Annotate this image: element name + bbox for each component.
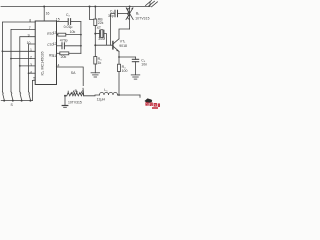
svg-text:4: 4 [30,71,32,75]
svg-text:IC₁ MC145026: IC₁ MC145026 [41,52,45,76]
svg-text:0.01μ: 0.01μ [64,25,73,29]
capacitor C2 0.01u [68,19,81,25]
node base branch [94,44,96,46]
resistor RB [94,7,97,34]
node RC col 470p [80,45,82,47]
svg-text:C₃: C₃ [110,9,115,13]
wire pin 7 [11,29,35,91]
svg-text:20k: 20k [61,55,67,59]
node junction stubA on rail [89,6,91,8]
svg-text:2: 2 [30,56,32,60]
wire pin 5 [32,80,35,100]
battery B2 10TV315 [65,91,84,96]
wire pin 1 [2,50,35,52]
switch S1 [1,92,4,93]
ground battery stub [62,96,68,108]
resistor R3 [94,57,97,73]
switch SA (pin 14) [57,67,84,95]
svg-text:C₂: C₂ [66,13,71,17]
svg-text:9: 9 [28,34,30,38]
inductor L1 12uH [100,92,118,95]
node crystal branch [94,33,96,35]
resistor R4 [118,64,121,95]
resistor R2 20k (pin11 RS) [57,52,81,55]
node pin4-col4 [28,72,30,74]
transistor VT1 9018 [113,39,119,52]
svg-text:SA: SA [71,71,76,75]
svg-text:RTC: RTC [47,32,54,36]
wire L1 right / emitter bottom [118,94,141,96]
svg-text:15: 15 [56,17,60,21]
svg-text:5: 5 [33,77,35,81]
node junction coil B1 on rail [129,6,131,8]
wire pin 8 [2,22,35,92]
node battery-left junction [64,95,66,97]
wire pin 2 [11,58,35,60]
op-amp ... IC U1 MC145026 box [35,21,56,85]
node emitter-L1 [118,94,120,96]
svg-text:10TV315: 10TV315 [68,100,82,104]
node pin2-col2 [10,58,12,60]
svg-text:8: 8 [29,19,31,23]
svg-text:CTC: CTC [47,43,54,47]
svg-text:RS: RS [49,53,53,57]
watermark logo [145,98,153,103]
svg-text:10TV315: 10TV315 [135,16,149,20]
svg-text:12μH: 12μH [97,98,106,102]
wire pin 16 stub [43,7,45,22]
svg-text:470p: 470p [60,39,68,43]
wire pin 15 Dout [57,21,69,23]
wire pin 4 [29,72,36,74]
watermark red text [145,102,160,109]
wire RB column to base [94,34,96,57]
svg-text:9018: 9018 [119,44,127,48]
svg-text:B₂: B₂ [75,89,79,93]
wire pin 3 [20,65,35,67]
capacitor C3 30p coupling [111,10,130,45]
node pin1-col1 [2,50,4,52]
capacitor C4 [132,57,138,75]
svg-text:14: 14 [56,63,60,67]
node RC col 10k [80,34,82,36]
svg-text:1: 1 [30,48,32,52]
text labels [27,11,60,80]
svg-text:30p: 30p [108,14,114,18]
svg-text:16: 16 [46,11,50,15]
crystal XT 30M [95,30,106,45]
inductor B1 adjustable coil 10TV315 [126,7,134,30]
svg-text:3: 3 [30,63,32,67]
wire VDD top rail [1,6,150,8]
wire pin 9 [20,37,35,92]
svg-text:100: 100 [122,69,128,73]
node pin3-col3 [19,65,21,67]
node junction RB on rail [94,6,96,8]
capacitor C1 470p (pin12 CTC) [57,43,81,49]
svg-text:1k: 1k [98,61,102,65]
svg-text:10: 10 [27,41,31,45]
wire ground/common bottom rail [1,100,32,102]
antenna [146,1,158,7]
wire emitter bypass to C4 [119,56,136,58]
resistor R1 10k (pin13 RTC) [57,33,81,36]
svg-text:22k: 22k [98,21,104,25]
node emitter branch [118,56,120,58]
wire emitter down [118,51,120,64]
switch S4 [28,92,31,93]
node junction pin16 on rail [43,6,45,8]
svg-text:30M: 30M [98,37,105,41]
switch S2 [10,92,13,93]
wire base [95,44,113,46]
ground C4 [131,75,140,79]
wire RC junction column [80,22,82,54]
svg-text:10n: 10n [141,63,147,67]
svg-text:VT₁: VT₁ [120,39,126,43]
wire stub A rail to RB bottom-left [90,7,94,20]
wire battery to L1 [84,94,100,97]
wire collector up [119,29,130,39]
svg-text:7: 7 [29,26,31,30]
wire pin 10 [29,44,36,92]
svg-text:10k: 10k [70,30,76,34]
switch S3 [19,92,22,93]
ground R3 [91,73,100,77]
